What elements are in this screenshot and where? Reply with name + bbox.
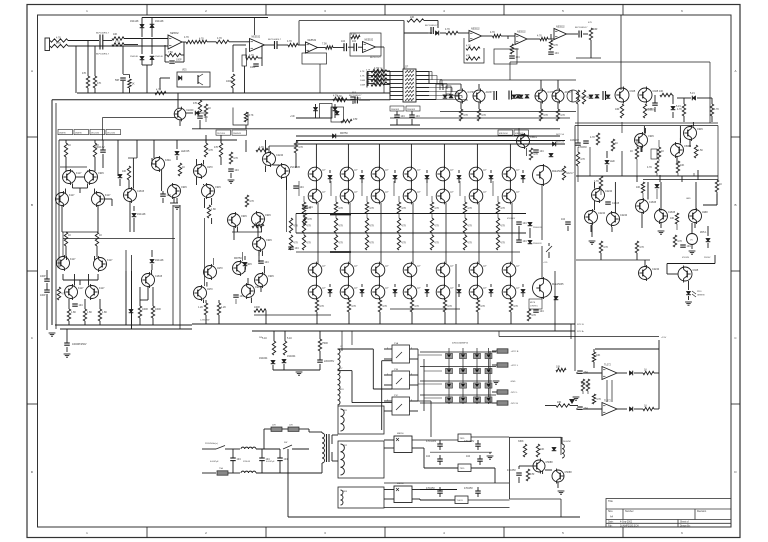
svg-text:NOTC B: NOTC B — [556, 142, 564, 144]
wire — [62, 274, 64, 280]
wire — [541, 298, 543, 299]
svg-text:47R: 47R — [530, 473, 535, 476]
diode D36 — [425, 175, 430, 178]
relay P1A — [392, 345, 410, 363]
wire — [403, 21, 405, 34]
wire — [697, 97, 712, 99]
svg-text:1: 1 — [387, 348, 388, 350]
wire — [146, 65, 148, 93]
diode D43 — [521, 289, 526, 292]
transistor Q54 C? — [469, 262, 487, 279]
svg-text:NOTC A: NOTC A — [556, 133, 564, 136]
diode D8 — [333, 107, 338, 110]
IC pin zig — [405, 74, 414, 76]
inductor L1 — [338, 349, 341, 405]
zone tick top — [146, 5, 148, 16]
wire — [545, 405, 556, 407]
resistor R46 — [582, 90, 591, 104]
wire — [94, 256, 96, 260]
transistor Q4 C4793 — [535, 89, 555, 104]
svg-text:C945: C945 — [653, 90, 659, 93]
wire — [490, 170, 492, 173]
vr meter V5 — [687, 234, 698, 245]
svg-text:T5A: T5A — [219, 467, 223, 470]
diode D42 — [521, 175, 526, 178]
capacitor C44 — [259, 458, 270, 461]
zone tick top — [503, 5, 505, 16]
svg-text:4.7K: 4.7K — [531, 314, 536, 317]
wire — [479, 455, 481, 459]
wire — [233, 227, 235, 240]
wire — [60, 328, 192, 330]
svg-text:GND: GND — [686, 198, 691, 200]
wire — [509, 181, 511, 189]
transistor Q55 C? — [469, 284, 487, 301]
resistor R80 — [315, 300, 324, 312]
resistor R25 4.7K — [333, 95, 343, 101]
wire — [694, 223, 696, 228]
wire — [295, 214, 297, 234]
resistor R13 4.7K — [216, 37, 229, 44]
svg-text:4.7K: 4.7K — [447, 305, 452, 308]
transistor Q21 — [202, 183, 222, 199]
IC pin zig — [405, 78, 414, 80]
transistor Q partial — [567, 90, 579, 102]
resistor R16 4.7K — [287, 40, 298, 47]
wire — [431, 214, 433, 219]
wire — [372, 349, 374, 389]
svg-text:4.7K: 4.7K — [414, 305, 419, 308]
wire — [709, 62, 711, 123]
wire — [46, 283, 48, 290]
wire — [542, 471, 544, 474]
svg-text:10K: 10K — [410, 16, 415, 19]
svg-text:104: 104 — [240, 295, 245, 298]
svg-text:C2240: C2240 — [598, 212, 606, 215]
transistor Q71 A968 — [689, 208, 709, 224]
wire — [417, 349, 419, 401]
wire — [97, 274, 99, 280]
wire — [79, 280, 81, 285]
wire — [640, 147, 642, 152]
transistor Q2 C4793 — [455, 89, 475, 104]
svg-text:Title: Title — [608, 499, 613, 503]
bridge rectifier MB1 — [394, 436, 412, 453]
wire — [376, 46, 385, 48]
wire — [315, 181, 317, 189]
wire — [641, 147, 643, 152]
wire — [440, 32, 446, 34]
wire — [522, 293, 524, 297]
wire — [164, 45, 166, 55]
svg-text:4.7K: 4.7K — [500, 207, 505, 210]
wire — [591, 224, 593, 237]
wire — [378, 144, 380, 168]
wire — [319, 351, 321, 360]
resistor R29 4.7K — [537, 35, 548, 41]
svg-text:1K: 1K — [661, 150, 664, 153]
wire — [299, 20, 404, 22]
svg-text:K117: K117 — [105, 194, 111, 197]
IC pin zig — [405, 82, 414, 84]
wire — [229, 41, 250, 43]
wire — [440, 111, 576, 113]
svg-text:470/25V: 470/25V — [464, 487, 473, 490]
wire — [423, 359, 425, 411]
transistor Q38 C? — [340, 262, 358, 279]
resistor R91 — [397, 235, 406, 250]
wire — [265, 140, 267, 153]
svg-text:4.7K: 4.7K — [378, 79, 383, 82]
wire — [511, 203, 513, 264]
svg-text:7.5K: 7.5K — [168, 51, 173, 54]
wire — [389, 88, 391, 100]
capacitor C34 — [533, 150, 544, 153]
wire — [260, 226, 262, 233]
svg-text:10K: 10K — [659, 90, 664, 93]
diode D12 — [449, 95, 454, 98]
wire — [384, 400, 392, 402]
label box — [106, 130, 121, 135]
svg-text:D:\AMP2020.SCH: D:\AMP2020.SCH — [620, 524, 639, 527]
wire — [186, 112, 193, 114]
wire — [139, 287, 141, 306]
svg-text:4.7K: 4.7K — [543, 114, 548, 117]
wire — [492, 350, 497, 352]
wire — [672, 94, 673, 96]
ground — [493, 381, 500, 384]
diode matrix cell — [446, 368, 453, 373]
wire — [410, 374, 419, 376]
wire — [384, 489, 394, 491]
transformer secondary BR1 — [338, 406, 384, 434]
wire — [335, 233, 337, 235]
wire — [571, 90, 573, 102]
wire — [676, 156, 678, 164]
diode D21 5.1V — [690, 92, 696, 100]
diode D17 — [589, 95, 594, 98]
svg-text:Date:: Date: — [608, 521, 614, 524]
wire — [430, 451, 492, 453]
wire — [667, 263, 715, 265]
wire — [103, 117, 177, 119]
resistor R33 — [549, 40, 558, 50]
resistor R85 — [365, 202, 374, 214]
capacitor C49 — [466, 455, 483, 461]
svg-text:100R: 100R — [226, 80, 232, 83]
wire — [420, 402, 496, 404]
wire — [347, 299, 350, 300]
wire — [410, 277, 412, 285]
svg-text:100R: 100R — [254, 306, 260, 309]
zone tick right — [731, 403, 740, 405]
svg-text:1K: 1K — [208, 107, 211, 110]
svg-text:TL072: TL072 — [604, 364, 611, 367]
wire — [479, 461, 481, 465]
wire — [358, 46, 363, 48]
resistor R129 47R — [526, 469, 534, 481]
wire — [129, 75, 131, 79]
capacitor C42 — [680, 245, 691, 248]
resistor R42 — [477, 109, 486, 121]
resistor R124 — [673, 235, 682, 247]
wire — [507, 36, 509, 39]
diode matrix cell — [460, 397, 467, 402]
diode D27 MR750 — [234, 257, 247, 266]
feedback box — [350, 33, 381, 56]
capacitor C36 — [516, 222, 527, 225]
wire — [181, 54, 184, 56]
wire — [677, 97, 691, 99]
connector J1 input jack — [45, 38, 50, 51]
wire — [659, 175, 661, 182]
wire — [172, 205, 174, 325]
svg-text:4.7K: 4.7K — [56, 36, 61, 39]
wire — [111, 199, 113, 206]
resistor R88 — [378, 300, 387, 312]
wire — [540, 102, 542, 109]
svg-text:2: 2 — [411, 374, 412, 376]
resistor R137 NC/4.7 — [562, 166, 574, 180]
wire — [296, 135, 560, 137]
wire — [68, 40, 99, 42]
transistor Q65 — [684, 125, 704, 141]
resistor R132 47K — [581, 379, 590, 391]
diode D18 — [595, 95, 600, 98]
resistor R18 4.7K — [351, 33, 360, 39]
svg-text:ZD5.1: ZD5.1 — [700, 231, 707, 234]
ground — [296, 372, 303, 375]
svg-text:4.7K: 4.7K — [369, 225, 374, 228]
wire — [658, 340, 660, 409]
svg-text:X2/0.68: X2/0.68 — [243, 461, 251, 463]
capacitor C45 — [277, 458, 288, 461]
wire — [254, 314, 331, 316]
wire — [338, 348, 374, 350]
wire — [218, 315, 220, 324]
diode matrix cell — [446, 383, 453, 388]
wire — [173, 198, 175, 203]
resistor R115 1K — [630, 147, 639, 159]
wire — [509, 277, 511, 285]
wire — [688, 296, 690, 300]
svg-text:250V/2W: 250V/2W — [527, 136, 535, 138]
wire — [183, 42, 185, 62]
capacitor C35 — [533, 310, 544, 313]
svg-text:1: 1 — [387, 400, 388, 402]
transistor Q16 K117 — [94, 256, 114, 272]
svg-text:0.0047µF: 0.0047µF — [266, 461, 275, 463]
wire — [589, 147, 591, 176]
svg-text:4.7K: 4.7K — [560, 114, 565, 117]
wire — [525, 148, 527, 156]
svg-text:C945: C945 — [648, 135, 654, 138]
svg-text:TL431: TL431 — [457, 500, 464, 502]
svg-text:5.1V: 5.1V — [690, 92, 695, 95]
svg-text:P1B: P1B — [394, 369, 399, 371]
wire — [318, 47, 326, 49]
label box output device — [216, 130, 231, 135]
resistor R63 100R — [138, 306, 148, 318]
inductor L5 — [341, 409, 345, 431]
transistor Q27 A970 — [194, 285, 214, 301]
svg-text:4.7K: 4.7K — [481, 114, 486, 117]
wire — [119, 179, 121, 186]
transistor Q36 C? — [340, 166, 358, 183]
resistor R3 10K — [112, 33, 124, 40]
wire — [672, 112, 674, 118]
resistor R121 10K — [670, 213, 679, 224]
capacitor C29 — [293, 186, 304, 189]
wire — [576, 175, 718, 177]
wire — [703, 204, 717, 206]
wire — [352, 100, 354, 104]
wire — [228, 472, 240, 474]
transistor Q66 C2240 — [592, 187, 613, 203]
wire — [398, 196, 400, 202]
wire — [359, 99, 370, 101]
svg-text:4.7K: 4.7K — [639, 246, 644, 249]
wire — [439, 80, 441, 90]
wire — [384, 498, 394, 500]
wire — [681, 176, 683, 182]
resistor R125 1K — [715, 180, 722, 192]
wire — [129, 88, 131, 93]
wire — [142, 17, 268, 19]
svg-text:4.7K: 4.7K — [287, 40, 292, 43]
transformer core — [326, 434, 328, 462]
wire — [99, 299, 101, 309]
resistor R82 — [334, 218, 343, 233]
svg-text:4.7K: 4.7K — [401, 242, 406, 245]
wire — [317, 203, 319, 264]
wire — [256, 448, 280, 450]
zone tick bottom — [384, 527, 386, 538]
wire — [202, 472, 216, 474]
resistor R45 — [576, 90, 585, 104]
transistor Q69 C1845 — [636, 198, 657, 214]
wire — [384, 410, 392, 412]
capacitor C26 — [72, 304, 83, 307]
wire — [577, 147, 579, 152]
svg-text:1.8K: 1.8K — [87, 311, 92, 314]
wire — [683, 98, 685, 104]
wire — [403, 55, 405, 69]
svg-text:A: A — [31, 69, 33, 73]
wire — [498, 331, 500, 337]
svg-text:B: B — [734, 203, 736, 207]
wire — [153, 140, 155, 158]
wire — [658, 159, 660, 161]
wire — [261, 251, 263, 257]
switch SW2 — [283, 445, 292, 449]
svg-text:10K: 10K — [113, 33, 118, 36]
ground — [174, 206, 181, 209]
wire — [443, 144, 445, 168]
svg-text:10000P/250V: 10000P/250V — [72, 343, 87, 346]
wire — [315, 104, 317, 107]
wire — [177, 93, 179, 108]
capacitor C51 470/25V — [464, 487, 481, 493]
wire — [550, 34, 552, 39]
wire — [141, 18, 143, 38]
wire — [329, 284, 331, 287]
wire — [65, 246, 67, 256]
wire — [332, 434, 338, 436]
wire — [72, 170, 74, 173]
resistor R52 4.7K — [710, 104, 719, 116]
wire — [518, 466, 520, 469]
wire — [478, 102, 480, 109]
diode matrix cell — [485, 368, 492, 373]
wire — [448, 348, 450, 404]
wire — [689, 140, 691, 147]
wire — [303, 196, 305, 202]
regulator 7915 — [458, 464, 471, 472]
wire — [420, 489, 457, 491]
resistor R44 — [556, 109, 565, 121]
wire — [383, 70, 390, 72]
wire — [476, 181, 478, 189]
relay P1B — [392, 371, 410, 389]
svg-text:4.7K: 4.7K — [338, 207, 343, 210]
wire — [94, 140, 96, 143]
transistor Q58 C? — [502, 262, 520, 279]
transistor Q51 C? — [436, 284, 454, 301]
svg-text:4.7K: 4.7K — [537, 35, 542, 38]
wire — [192, 128, 560, 130]
wire — [410, 384, 419, 386]
svg-text:BR1: BR1 — [340, 389, 344, 391]
wire — [451, 88, 453, 93]
wire — [131, 271, 133, 329]
wire — [518, 226, 520, 240]
transistor Q33 C? — [308, 188, 326, 205]
svg-text:+VD: +VD — [290, 116, 295, 118]
svg-text:C1815: C1815 — [612, 202, 620, 205]
svg-text:4.7K: 4.7K — [369, 242, 374, 245]
wire — [476, 277, 478, 285]
wire — [200, 112, 206, 114]
wire — [443, 277, 445, 285]
svg-text:4.7K: 4.7K — [401, 225, 406, 228]
svg-text:10K: 10K — [540, 448, 545, 451]
feedback loop op5 — [464, 38, 484, 63]
wire — [76, 176, 85, 178]
wire — [265, 311, 267, 325]
diode D partial — [569, 399, 575, 404]
svg-text:4.7K: 4.7K — [255, 222, 260, 225]
wire — [68, 299, 70, 309]
capacitor C2 56P — [115, 78, 126, 82]
wire — [205, 300, 207, 303]
svg-text:104: 104 — [235, 169, 240, 172]
svg-text:LED: LED — [610, 160, 615, 163]
svg-text:MJE15034: MJE15034 — [499, 133, 508, 135]
svg-text:MUTE: MUTE — [530, 302, 536, 304]
wire — [416, 75, 437, 77]
wire — [298, 181, 300, 196]
wire — [260, 287, 262, 292]
resistor R131 10K — [592, 352, 600, 362]
wire — [367, 79, 374, 81]
wire — [412, 447, 424, 449]
svg-text:2200/6.3V: 2200/6.3V — [533, 243, 542, 245]
wire — [54, 198, 57, 200]
wire — [683, 116, 685, 122]
wire — [707, 226, 709, 236]
wire — [102, 118, 104, 141]
